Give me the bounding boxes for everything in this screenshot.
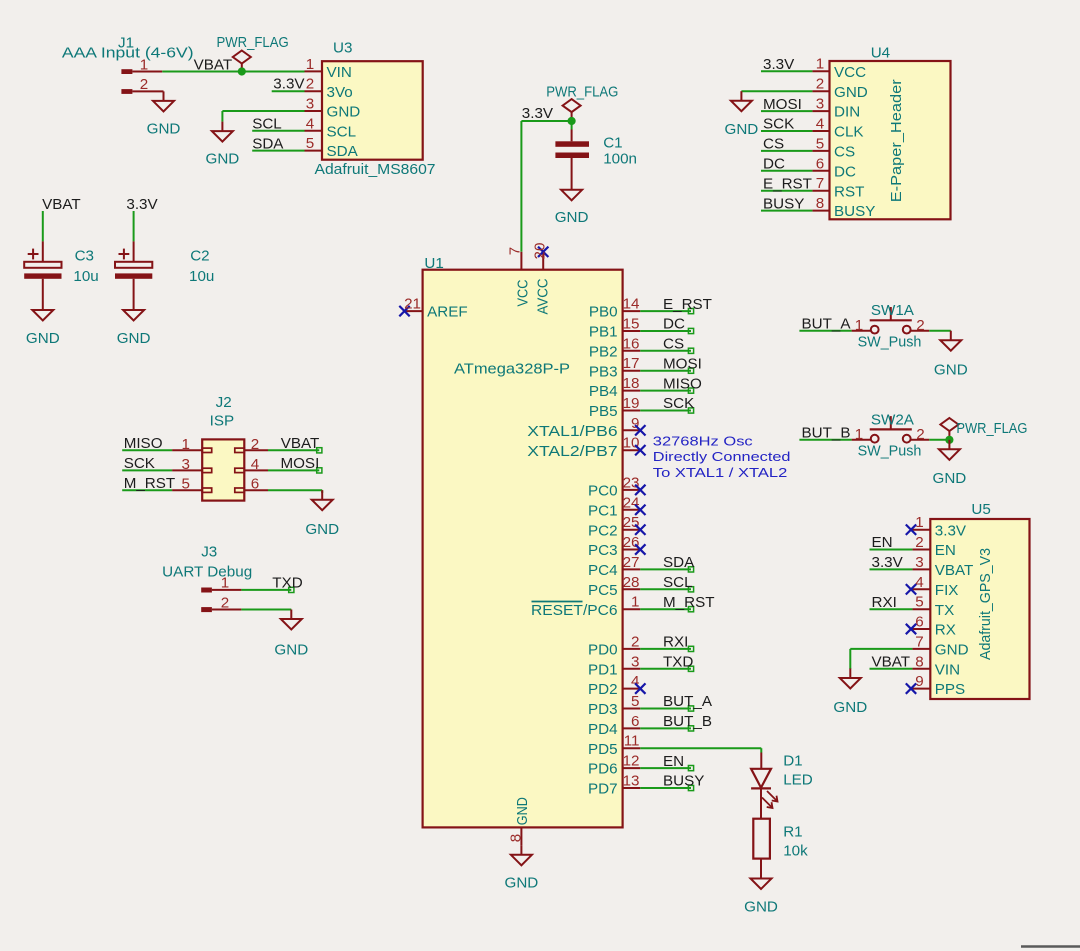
svg-text:2: 2 (915, 534, 923, 551)
svg-text:EN: EN (872, 534, 893, 551)
svg-text:PB1: PB1 (589, 324, 618, 341)
svg-text:SCL: SCL (663, 574, 693, 591)
svg-text:BUSY: BUSY (763, 195, 804, 212)
svg-text:2: 2 (140, 76, 148, 93)
svg-text:3: 3 (631, 653, 639, 670)
svg-text:6: 6 (251, 476, 259, 493)
svg-text:LED: LED (783, 771, 813, 788)
svg-text:AREF: AREF (427, 304, 468, 321)
svg-text:PB0: PB0 (589, 304, 618, 321)
svg-text:Adafruit_GPS_V3: Adafruit_GPS_V3 (977, 548, 994, 660)
svg-text:PD2: PD2 (588, 681, 618, 698)
svg-text:32768Hz Osc: 32768Hz Osc (653, 435, 753, 449)
svg-text:GND: GND (274, 642, 308, 659)
svg-text:RST: RST (834, 183, 864, 200)
svg-text:GND: GND (206, 151, 240, 168)
svg-text:SW_Push: SW_Push (858, 334, 922, 351)
svg-text:19: 19 (623, 395, 640, 412)
svg-text:SW_Push: SW_Push (858, 443, 922, 460)
svg-text:DC: DC (663, 316, 685, 333)
svg-text:GND: GND (555, 209, 589, 226)
svg-text:VBAT: VBAT (935, 562, 974, 579)
svg-text:3Vo: 3Vo (327, 84, 353, 101)
svg-text:GND: GND (725, 121, 759, 138)
svg-text:GND: GND (327, 104, 361, 121)
svg-text:PWR_FLAG: PWR_FLAG (956, 420, 1027, 437)
svg-text:VCC: VCC (514, 279, 531, 306)
svg-text:AVCC: AVCC (534, 278, 551, 314)
svg-text:16: 16 (623, 335, 640, 352)
svg-text:3: 3 (181, 456, 189, 473)
svg-text:MOSI: MOSI (280, 455, 319, 472)
svg-text:3.3V: 3.3V (935, 522, 967, 539)
svg-text:SCK: SCK (124, 455, 155, 472)
svg-text:RESET/PC6: RESET/PC6 (531, 602, 618, 619)
svg-text:U4: U4 (871, 45, 890, 62)
svg-text:SCL: SCL (252, 116, 282, 133)
svg-text:PWR_FLAG: PWR_FLAG (217, 34, 289, 51)
svg-text:VBAT: VBAT (194, 57, 233, 74)
svg-text:VIN: VIN (935, 661, 960, 678)
svg-text:1: 1 (855, 426, 863, 443)
svg-text:PD4: PD4 (588, 721, 618, 738)
svg-text:SCK: SCK (763, 116, 794, 133)
svg-text:TX: TX (935, 602, 954, 619)
svg-text:XTAL2/PB7: XTAL2/PB7 (527, 443, 617, 460)
svg-text:SDA: SDA (327, 143, 359, 160)
svg-text:UART Debug: UART Debug (162, 564, 252, 581)
svg-text:SDA: SDA (252, 135, 284, 152)
svg-text:E_RST: E_RST (663, 296, 712, 313)
svg-text:18: 18 (623, 375, 640, 392)
svg-text:10u: 10u (73, 268, 98, 285)
svg-text:14: 14 (623, 296, 640, 313)
svg-text:ISP: ISP (210, 413, 234, 430)
svg-text:SCL: SCL (327, 123, 357, 140)
svg-text:EN: EN (935, 542, 956, 559)
svg-text:BUSY: BUSY (663, 773, 704, 790)
svg-text:24: 24 (623, 494, 640, 511)
svg-text:DC: DC (834, 163, 856, 180)
svg-text:VBAT: VBAT (42, 196, 81, 213)
svg-text:PD1: PD1 (588, 661, 618, 678)
svg-text:10u: 10u (189, 268, 214, 285)
svg-text:5: 5 (181, 476, 189, 493)
svg-text:2: 2 (221, 594, 229, 611)
svg-text:PC5: PC5 (588, 582, 618, 599)
svg-text:3.3V: 3.3V (872, 554, 904, 571)
svg-text:VBAT: VBAT (872, 654, 911, 671)
svg-text:RX: RX (935, 622, 956, 639)
svg-text:MISO: MISO (124, 435, 163, 452)
svg-text:3.3V: 3.3V (273, 76, 305, 93)
svg-text:10k: 10k (783, 842, 808, 859)
svg-text:3: 3 (306, 96, 314, 113)
svg-text:GND: GND (934, 362, 968, 379)
svg-text:5: 5 (816, 135, 824, 152)
svg-text:PC1: PC1 (588, 502, 618, 519)
svg-text:27: 27 (623, 554, 640, 571)
svg-text:PD7: PD7 (588, 781, 618, 798)
svg-text:2: 2 (631, 633, 639, 650)
svg-text:PD5: PD5 (588, 741, 618, 758)
svg-text:U3: U3 (333, 39, 352, 56)
svg-text:3.3V: 3.3V (126, 196, 158, 213)
svg-text:7: 7 (915, 633, 923, 650)
svg-text:8: 8 (507, 834, 524, 842)
svg-text:3.3V: 3.3V (522, 105, 554, 122)
svg-text:GND: GND (147, 120, 181, 137)
svg-text:MOSI: MOSI (763, 96, 802, 113)
svg-text:PC0: PC0 (588, 483, 618, 500)
svg-text:XTAL1/PB6: XTAL1/PB6 (527, 423, 617, 440)
svg-text:U1: U1 (424, 255, 443, 272)
svg-text:10: 10 (623, 435, 640, 452)
svg-text:RXI: RXI (663, 634, 688, 651)
svg-text:2: 2 (916, 426, 924, 443)
svg-text:FIX: FIX (935, 582, 959, 599)
svg-text:3: 3 (915, 554, 923, 571)
svg-text:GND: GND (117, 330, 151, 347)
svg-text:MOSI: MOSI (663, 355, 702, 372)
svg-text:2: 2 (916, 317, 924, 334)
svg-text:BUT_A: BUT_A (663, 693, 713, 710)
svg-text:PB3: PB3 (589, 363, 618, 380)
svg-text:VIN: VIN (327, 64, 352, 81)
svg-text:PB4: PB4 (589, 383, 618, 400)
svg-text:4: 4 (306, 115, 314, 132)
svg-text:GND: GND (26, 330, 60, 347)
svg-text:BUSY: BUSY (834, 203, 875, 220)
svg-text:PB5: PB5 (589, 403, 618, 420)
svg-text:R1: R1 (783, 824, 802, 841)
svg-text:MISO: MISO (663, 375, 702, 392)
svg-text:DIN: DIN (834, 104, 860, 121)
svg-text:M_RST: M_RST (663, 594, 714, 611)
svg-text:GND: GND (505, 874, 539, 891)
svg-text:E-Paper_Header: E-Paper_Header (888, 79, 905, 202)
svg-text:PB2: PB2 (589, 343, 618, 360)
svg-text:AAA Input (4-6V): AAA Input (4-6V) (62, 45, 194, 62)
svg-text:CS: CS (834, 144, 855, 161)
svg-text:GND: GND (514, 797, 531, 825)
svg-text:SW2A: SW2A (871, 411, 915, 428)
svg-text:5: 5 (306, 135, 314, 152)
svg-text:D1: D1 (783, 753, 802, 770)
svg-text:11: 11 (624, 733, 640, 750)
svg-text:2: 2 (251, 436, 259, 453)
svg-text:12: 12 (623, 753, 640, 770)
svg-text:DC: DC (763, 156, 785, 173)
svg-text:17: 17 (623, 355, 640, 372)
svg-text:To XTAL1 / XTAL2: To XTAL1 / XTAL2 (653, 466, 788, 480)
svg-text:PC4: PC4 (588, 562, 618, 579)
svg-text:8: 8 (816, 195, 824, 212)
svg-text:4: 4 (816, 116, 824, 133)
svg-text:1: 1 (181, 436, 189, 453)
svg-text:GND: GND (935, 642, 969, 659)
svg-text:GND: GND (305, 521, 339, 538)
svg-text:15: 15 (623, 316, 640, 333)
svg-text:EN: EN (663, 753, 684, 770)
svg-text:ATmega328P-P: ATmega328P-P (454, 361, 570, 378)
svg-text:U5: U5 (971, 501, 990, 518)
svg-text:26: 26 (623, 534, 640, 551)
svg-text:M_RST: M_RST (124, 475, 175, 492)
svg-text:C3: C3 (75, 248, 94, 265)
svg-text:SCK: SCK (663, 395, 694, 412)
svg-text:8: 8 (915, 653, 923, 670)
svg-text:7: 7 (816, 175, 824, 192)
svg-text:4: 4 (251, 456, 259, 473)
svg-text:6: 6 (915, 614, 923, 631)
svg-text:PD6: PD6 (588, 761, 618, 778)
svg-text:J2: J2 (216, 394, 232, 411)
svg-text:BUT_A: BUT_A (802, 315, 852, 332)
svg-text:1: 1 (855, 317, 863, 334)
svg-text:GND: GND (933, 470, 967, 487)
svg-text:Adafruit_MS8607: Adafruit_MS8607 (315, 161, 436, 178)
svg-text:1: 1 (140, 56, 148, 73)
svg-text:13: 13 (623, 773, 640, 790)
svg-text:C2: C2 (190, 248, 209, 265)
svg-text:21: 21 (404, 296, 421, 313)
svg-text:20: 20 (531, 243, 548, 260)
svg-text:100n: 100n (603, 151, 637, 168)
svg-text:Directly Connected: Directly Connected (653, 450, 791, 464)
svg-text:6: 6 (816, 155, 824, 172)
svg-text:SW1A: SW1A (871, 302, 915, 319)
svg-text:7: 7 (506, 247, 523, 255)
svg-text:4: 4 (915, 574, 923, 591)
svg-text:PC3: PC3 (588, 542, 618, 559)
svg-text:E_RST: E_RST (763, 175, 812, 192)
svg-text:5: 5 (915, 594, 923, 611)
svg-text:PD0: PD0 (588, 642, 618, 659)
svg-text:25: 25 (623, 514, 640, 531)
svg-text:VBAT: VBAT (281, 435, 320, 452)
svg-text:PWR_FLAG: PWR_FLAG (546, 84, 618, 101)
svg-text:GND: GND (834, 84, 868, 101)
svg-text:9: 9 (915, 673, 923, 690)
svg-text:2: 2 (306, 76, 314, 93)
svg-text:CS: CS (663, 336, 684, 353)
svg-text:CLK: CLK (834, 124, 864, 141)
svg-text:PD3: PD3 (588, 701, 618, 718)
svg-text:CS: CS (763, 136, 784, 153)
svg-text:BUT_B: BUT_B (802, 425, 851, 442)
svg-text:RXI: RXI (872, 594, 897, 611)
svg-text:1: 1 (221, 575, 229, 592)
svg-text:1: 1 (631, 594, 639, 611)
svg-text:J3: J3 (201, 544, 217, 561)
svg-text:GND: GND (833, 699, 867, 716)
svg-text:1: 1 (306, 56, 314, 73)
svg-text:6: 6 (631, 713, 639, 730)
svg-text:5: 5 (631, 693, 639, 710)
svg-text:PC2: PC2 (588, 522, 618, 539)
svg-text:C1: C1 (603, 134, 622, 151)
svg-text:3.3V: 3.3V (763, 56, 795, 73)
svg-text:TXD: TXD (272, 575, 302, 592)
svg-text:GND: GND (744, 899, 778, 916)
svg-text:VCC: VCC (834, 64, 866, 81)
svg-text:BUT_B: BUT_B (663, 713, 712, 730)
svg-text:28: 28 (623, 574, 640, 591)
svg-text:2: 2 (816, 76, 824, 93)
svg-text:3: 3 (816, 96, 824, 113)
svg-text:SDA: SDA (663, 554, 695, 571)
svg-text:TXD: TXD (663, 654, 693, 671)
svg-text:1: 1 (816, 56, 824, 73)
svg-text:1: 1 (915, 514, 923, 531)
svg-text:23: 23 (623, 474, 640, 491)
svg-text:PPS: PPS (935, 681, 965, 698)
